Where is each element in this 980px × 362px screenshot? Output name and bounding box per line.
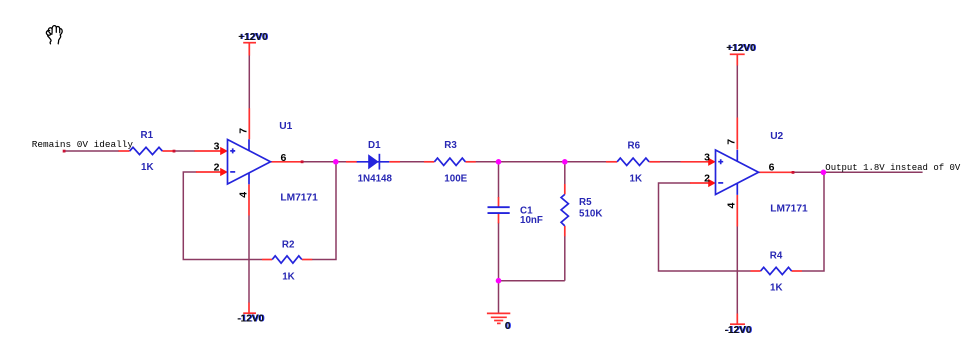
svg-text:LM7171: LM7171 [770,203,808,214]
svg-text:U2: U2 [770,131,783,142]
svg-text:2: 2 [214,161,220,173]
svg-text:Remains 0V ideally: Remains 0V ideally [32,139,134,150]
svg-text:3: 3 [704,151,710,163]
svg-text:R5: R5 [579,197,592,208]
svg-text:10nF: 10nF [520,215,543,226]
svg-text:3: 3 [214,140,220,152]
svg-text:100E: 100E [444,173,467,184]
svg-text:6: 6 [280,152,286,164]
svg-text:R3: R3 [444,140,457,151]
svg-text:1N4148: 1N4148 [358,173,393,184]
svg-text:R2: R2 [282,239,295,250]
svg-text:+12V0: +12V0 [726,43,756,54]
svg-text:R6: R6 [628,141,641,152]
svg-text:-12V0: -12V0 [725,325,752,336]
svg-text:R1: R1 [141,130,154,141]
svg-text:LM7171: LM7171 [280,193,318,204]
svg-text:1K: 1K [630,173,643,184]
svg-text:D1: D1 [368,140,381,151]
svg-text:1K: 1K [770,282,783,293]
svg-text:+12V0: +12V0 [238,32,268,43]
svg-text:6: 6 [769,162,775,174]
svg-text:7: 7 [237,128,249,134]
svg-text:0: 0 [505,321,511,332]
svg-text:-12V0: -12V0 [237,314,264,325]
svg-text:1K: 1K [141,162,154,173]
svg-text:2: 2 [704,172,710,184]
svg-text:Output 1.8V instead of 0V: Output 1.8V instead of 0V [825,163,961,173]
svg-text:4: 4 [237,192,249,198]
svg-text:510K: 510K [579,208,602,219]
svg-text:7: 7 [726,139,738,145]
svg-text:4: 4 [726,203,738,209]
svg-text:1K: 1K [282,271,295,282]
svg-text:U1: U1 [279,121,292,132]
svg-text:R4: R4 [770,250,783,261]
